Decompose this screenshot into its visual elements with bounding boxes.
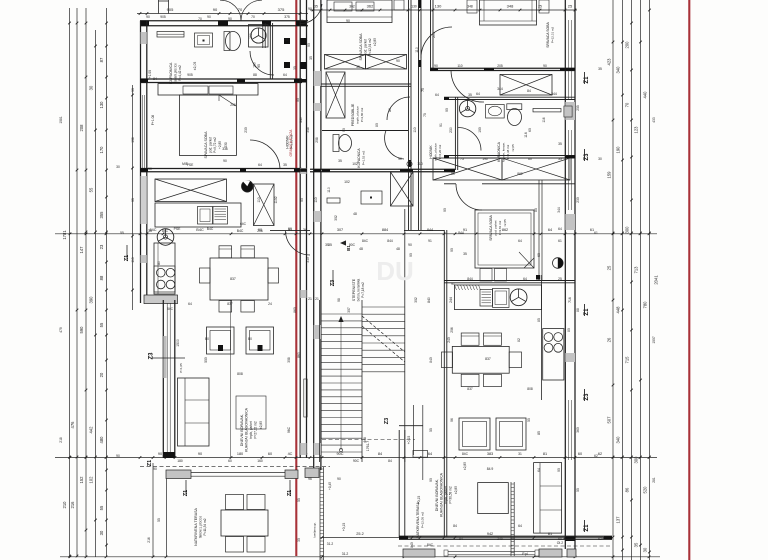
bathroom partition wall xyxy=(269,23,271,79)
svg-text:35: 35 xyxy=(148,229,152,233)
svg-text:90: 90 xyxy=(116,454,120,458)
svg-text:942: 942 xyxy=(487,532,493,536)
wc top wall xyxy=(322,130,408,132)
stair dashed level line xyxy=(322,439,415,441)
svg-text:PSE: PSE xyxy=(174,227,182,231)
terrace west edge xyxy=(152,463,154,557)
kitchen cabinet xbox row xyxy=(155,179,227,202)
svg-text:360: 360 xyxy=(576,427,580,433)
stair break dashed diagonal xyxy=(362,316,405,352)
lower horizontal dimension line xyxy=(55,457,657,459)
svg-text:862: 862 xyxy=(502,228,508,232)
svg-text:25: 25 xyxy=(558,277,562,281)
svg-text:216: 216 xyxy=(147,537,151,543)
coffee table right xyxy=(478,483,509,514)
svg-text:302: 302 xyxy=(414,297,418,303)
svg-text:2041: 2041 xyxy=(654,275,659,285)
svg-text:±2,05: ±2,05 xyxy=(511,144,515,152)
svg-text:84: 84 xyxy=(453,524,457,528)
svg-text:90: 90 xyxy=(307,43,311,47)
south facade pier west xyxy=(166,470,191,479)
shower fan circle xyxy=(251,28,266,43)
svg-text:64: 64 xyxy=(548,228,552,232)
section circle marker xyxy=(553,258,564,269)
svg-text:344: 344 xyxy=(557,207,561,213)
bottom right dimension line xyxy=(322,537,612,539)
right unit bottom wall xyxy=(399,535,612,537)
svg-text:90: 90 xyxy=(557,468,561,472)
bedroom1 wall to kitchen xyxy=(140,168,302,170)
wc bottom wall xyxy=(310,168,455,170)
svg-text:64: 64 xyxy=(537,468,541,472)
lower west wall gray sliver xyxy=(163,336,166,378)
mid dim ticks xyxy=(69,233,72,236)
stair south pier xyxy=(305,468,319,478)
svg-text:90: 90 xyxy=(308,7,312,11)
svg-text:25: 25 xyxy=(538,5,542,9)
svg-text:844: 844 xyxy=(427,228,433,232)
svg-text:130: 130 xyxy=(435,4,442,9)
wardrobe xbox row right xyxy=(433,158,502,180)
svg-text:P=11,34 m2: P=11,34 m2 xyxy=(203,518,207,535)
svg-text:91: 91 xyxy=(428,239,432,243)
svg-text:51: 51 xyxy=(300,19,304,23)
stair walk line with arrow xyxy=(340,322,342,450)
svg-text:75: 75 xyxy=(421,88,425,92)
bedroom-m side table xyxy=(394,0,404,10)
svg-text:190: 190 xyxy=(482,157,488,161)
svg-text:64: 64 xyxy=(476,92,480,96)
svg-text:75: 75 xyxy=(423,113,427,117)
svg-text:218: 218 xyxy=(59,437,63,443)
svg-text:P=30,58 m2: P=30,58 m2 xyxy=(449,486,453,504)
dining chair right xyxy=(268,268,279,283)
svg-text:137: 137 xyxy=(616,516,621,524)
svg-text:60: 60 xyxy=(578,452,582,456)
svg-text:±2,85: ±2,85 xyxy=(463,462,467,470)
svg-text:48: 48 xyxy=(353,212,357,216)
svg-text:tepih, plocice: tepih, plocice xyxy=(356,106,360,124)
right facade pier 2 xyxy=(539,549,562,557)
svg-text:110: 110 xyxy=(257,197,261,202)
right dimension chain line 1 xyxy=(612,0,614,560)
entry hall wall xyxy=(399,425,423,427)
svg-text:81: 81 xyxy=(543,452,547,456)
svg-text:30: 30 xyxy=(643,547,648,552)
door stop circle xyxy=(407,161,412,166)
svg-text:116: 116 xyxy=(542,117,546,122)
svg-text:205: 205 xyxy=(497,64,503,68)
svg-text:84C: 84C xyxy=(362,239,369,243)
svg-text:1102: 1102 xyxy=(274,196,278,203)
bedroom3 door arc xyxy=(456,184,482,210)
svg-text:pod: parket: pod: parket xyxy=(494,220,498,235)
svg-text:Z3: Z3 xyxy=(384,418,390,424)
svg-text:beton, keramika: beton, keramika xyxy=(357,278,361,301)
svg-text:84: 84 xyxy=(153,77,157,81)
svg-text:B4C: B4C xyxy=(237,229,244,233)
svg-text:80: 80 xyxy=(157,261,161,265)
svg-text:90: 90 xyxy=(296,98,300,102)
left unit west wall upper xyxy=(140,21,142,303)
svg-text:433: 433 xyxy=(652,117,656,123)
bedroom1 pillow left xyxy=(183,86,208,94)
south facade dashed line xyxy=(140,465,330,467)
top wall stub lines xyxy=(158,0,160,14)
bathroom towel radiator xyxy=(157,32,184,38)
entry door arc top middle xyxy=(300,4,322,24)
east wall gray fills xyxy=(565,102,575,120)
east wall right unit xyxy=(564,0,566,549)
svg-text:62: 62 xyxy=(594,454,598,458)
svg-text:90: 90 xyxy=(398,157,402,161)
right facade pier 1 xyxy=(403,549,435,557)
terrace tick ruler xyxy=(319,467,321,560)
svg-text:keram.plocice: keram.plocice xyxy=(174,63,178,83)
svg-text:70: 70 xyxy=(625,102,630,107)
bathroom toilet xyxy=(224,32,230,51)
svg-text:+0,15: +0,15 xyxy=(407,436,411,445)
svg-text:200: 200 xyxy=(625,41,630,49)
west wall step counter hatch xyxy=(144,295,178,304)
svg-text:230: 230 xyxy=(576,197,580,203)
svg-text:91: 91 xyxy=(451,172,455,176)
left unit east wall xyxy=(299,0,301,458)
svg-text:255: 255 xyxy=(576,105,580,111)
svg-text:84: 84 xyxy=(388,459,392,463)
svg-text:308: 308 xyxy=(287,357,291,363)
kitchen counter row xyxy=(155,203,241,227)
wc toilet xyxy=(333,135,339,152)
terrace table xyxy=(221,510,268,536)
svg-text:837: 837 xyxy=(230,277,236,281)
svg-text:P+1.08: P+1.08 xyxy=(151,115,155,126)
svg-text:90: 90 xyxy=(443,208,447,212)
left unit top wall fills xyxy=(140,21,149,26)
corridor black squares xyxy=(284,38,290,44)
right dimension chain line 3 xyxy=(631,0,633,560)
svg-text:844: 844 xyxy=(458,231,464,235)
svg-text:35: 35 xyxy=(309,56,313,60)
svg-text:55: 55 xyxy=(297,498,301,502)
east wall window glass xyxy=(567,20,569,100)
dining2 chair top2 xyxy=(484,333,502,345)
svg-text:837: 837 xyxy=(485,357,491,361)
shower cell walls xyxy=(249,25,269,48)
svg-text:4C: 4C xyxy=(288,452,293,456)
svg-text:35: 35 xyxy=(293,66,297,70)
svg-text:205: 205 xyxy=(432,32,436,38)
svg-text:P=9,72 m2: P=9,72 m2 xyxy=(213,137,217,153)
svg-text:SPAVACA SOBA: SPAVACA SOBA xyxy=(204,131,208,159)
svg-text:DNEVNI BORAVAK,: DNEVNI BORAVAK, xyxy=(240,414,244,446)
dining table right unit xyxy=(452,346,509,373)
svg-text:64: 64 xyxy=(558,227,562,231)
dining2 chair top1 xyxy=(461,333,479,345)
svg-text:35: 35 xyxy=(598,67,602,71)
svg-text:48: 48 xyxy=(359,247,363,251)
svg-text:61: 61 xyxy=(558,239,562,243)
svg-text:tepih, parket: tepih, parket xyxy=(444,486,448,504)
svg-text:123: 123 xyxy=(634,126,639,134)
svg-text:448: 448 xyxy=(616,306,621,314)
svg-text:87: 87 xyxy=(99,57,104,62)
svg-text:86: 86 xyxy=(625,487,630,492)
svg-text:84C: 84C xyxy=(462,452,469,456)
lower window glass lines xyxy=(166,303,168,452)
svg-text:88: 88 xyxy=(99,275,104,280)
wardrobe xbox row mid xyxy=(325,55,366,70)
svg-text:110: 110 xyxy=(131,257,135,262)
svg-text:476: 476 xyxy=(70,421,75,429)
svg-text:P=2,80 m2: P=2,80 m2 xyxy=(360,107,364,122)
svg-text:716: 716 xyxy=(568,297,572,303)
svg-text:90: 90 xyxy=(408,243,412,247)
left dimension chain line 2 xyxy=(76,8,78,557)
svg-text:808: 808 xyxy=(527,387,533,391)
bedroom3 top wall xyxy=(444,183,456,185)
shaft xbox below wc xyxy=(391,172,414,206)
svg-text:85: 85 xyxy=(537,431,541,435)
kitchen dishrack xyxy=(213,207,228,225)
bedroom1 door arc xyxy=(250,140,280,169)
top entry door arc right xyxy=(241,0,262,21)
svg-text:110: 110 xyxy=(413,127,417,132)
south facade pier east xyxy=(285,470,298,479)
south facade glass doors xyxy=(191,472,285,474)
kitchen2 hatch top xyxy=(455,285,457,290)
svg-text:P=4,42 m2: P=4,42 m2 xyxy=(178,65,182,81)
west wall lower window wall xyxy=(162,300,164,458)
bathroom bottom wall xyxy=(140,78,302,80)
svg-text:26: 26 xyxy=(607,337,612,342)
svg-text:64: 64 xyxy=(523,277,527,281)
svg-text:DNEVNI BORAVAK,: DNEVNI BORAVAK, xyxy=(435,479,439,511)
svg-text:tepih, parket: tepih, parket xyxy=(249,421,253,439)
kitchen sink xyxy=(198,207,213,225)
svg-text:25: 25 xyxy=(607,265,612,270)
svg-text:190: 190 xyxy=(616,146,621,154)
svg-text:480: 480 xyxy=(99,436,104,444)
bathroom2 gray block xyxy=(564,106,572,117)
bathroom2 towel rail xyxy=(533,109,561,112)
bottom right dim ticks xyxy=(321,536,324,539)
svg-text:KUHINJA I BLAGOVAONICA: KUHINJA I BLAGOVAONICA xyxy=(440,472,444,517)
svg-text:307: 307 xyxy=(347,307,351,313)
svg-text:85: 85 xyxy=(534,208,538,212)
svg-text:340: 340 xyxy=(616,436,621,444)
svg-text:110: 110 xyxy=(327,187,331,193)
svg-text:130: 130 xyxy=(411,5,417,9)
svg-text:80: 80 xyxy=(388,108,392,112)
svg-text:520: 520 xyxy=(643,486,648,494)
svg-text:844: 844 xyxy=(467,277,473,281)
svg-text:90C: 90C xyxy=(353,459,360,463)
svg-text:423: 423 xyxy=(607,58,612,66)
armchair 2 xyxy=(246,327,274,354)
svg-text:180: 180 xyxy=(177,459,183,463)
svg-text:90: 90 xyxy=(450,248,454,252)
living room carpet rect xyxy=(236,396,266,429)
svg-text:362: 362 xyxy=(349,5,355,9)
dining chair bottom2 xyxy=(241,301,254,313)
top dim ticks left xyxy=(139,12,142,15)
svg-text:35: 35 xyxy=(356,65,360,69)
living room door arc xyxy=(286,231,311,255)
kitchen lower counter xyxy=(154,243,175,294)
svg-text:64: 64 xyxy=(258,163,262,167)
bathroom2 top wall xyxy=(444,96,575,98)
svg-text:Z1: Z1 xyxy=(147,460,153,466)
svg-text:442: 442 xyxy=(89,426,94,434)
svg-text:336: 336 xyxy=(222,147,228,151)
svg-text:230: 230 xyxy=(244,127,248,133)
svg-text:390: 390 xyxy=(89,296,94,304)
svg-text:B4C: B4C xyxy=(196,228,204,232)
right unit west wall xyxy=(313,0,315,470)
kitchen hob symbol xyxy=(242,181,254,193)
svg-text:±2,85: ±2,85 xyxy=(259,421,263,429)
dining table left unit xyxy=(210,258,268,300)
left dimension chain line 4 xyxy=(95,30,97,557)
bedroom3 bed xyxy=(475,210,534,268)
svg-text:190: 190 xyxy=(249,33,253,39)
svg-text:159: 159 xyxy=(607,171,612,179)
bedroom2 side table right xyxy=(539,0,549,13)
svg-text:310: 310 xyxy=(306,257,310,263)
svg-text:905: 905 xyxy=(187,73,193,77)
dining chair top1 xyxy=(219,246,232,258)
svg-text:35: 35 xyxy=(325,243,329,247)
svg-text:21: 21 xyxy=(315,297,319,301)
svg-text:383: 383 xyxy=(487,452,493,456)
svg-text:110: 110 xyxy=(417,162,423,166)
kitchen tall xbox xyxy=(254,184,275,226)
kitchen2 black marker xyxy=(536,275,540,280)
svg-text:25: 25 xyxy=(568,4,573,9)
svg-text:60: 60 xyxy=(528,128,532,132)
stair flight2 treads xyxy=(362,306,405,308)
svg-text:160: 160 xyxy=(253,62,257,68)
bedroom3 closet lines xyxy=(538,180,540,280)
svg-text:48: 48 xyxy=(396,247,400,251)
svg-text:31: 31 xyxy=(518,452,522,456)
svg-text:P=1,52 m2: P=1,52 m2 xyxy=(362,150,366,165)
svg-text:60: 60 xyxy=(268,452,272,456)
bedroom1 bed headboard xyxy=(158,84,258,95)
svg-text:B0: B0 xyxy=(205,337,209,341)
svg-text:96: 96 xyxy=(450,418,454,422)
svg-text:837: 837 xyxy=(467,387,473,391)
svg-text:90: 90 xyxy=(346,19,350,23)
stair west string xyxy=(319,300,321,462)
svg-text:780: 780 xyxy=(643,301,648,309)
svg-text:84: 84 xyxy=(527,89,531,93)
svg-text:64C: 64C xyxy=(240,222,247,226)
svg-text:P=6,20 m2: P=6,20 m2 xyxy=(438,144,442,159)
svg-text:P=27,32 m2: P=27,32 m2 xyxy=(254,421,258,439)
lower dim ticks xyxy=(69,456,72,459)
left living top wall seg xyxy=(270,230,310,232)
svg-text:SPAVACA SOBA: SPAVACA SOBA xyxy=(489,215,493,241)
left dimension chain line 3 xyxy=(85,8,87,557)
bedroom2 bottom wall xyxy=(430,67,575,69)
svg-text:95: 95 xyxy=(131,198,135,202)
east wall gray fills xyxy=(300,38,306,45)
svg-text:147: 147 xyxy=(79,246,84,254)
stair block east wall xyxy=(398,430,400,537)
shower divider wall xyxy=(262,23,264,48)
svg-text:348: 348 xyxy=(306,127,310,133)
left dimension chain line 1 xyxy=(69,8,71,557)
bathroom door arc xyxy=(250,51,274,75)
armchair right1 xyxy=(459,418,490,450)
svg-text:1500: 1500 xyxy=(176,339,180,347)
kitchen2 east counter wall xyxy=(541,275,543,400)
svg-text:70: 70 xyxy=(251,15,255,19)
svg-text:507: 507 xyxy=(607,416,612,424)
svg-text:860: 860 xyxy=(293,307,297,313)
svg-text:302: 302 xyxy=(334,215,338,221)
bedroom2 door arc xyxy=(451,71,484,103)
svg-text:55: 55 xyxy=(120,231,124,235)
svg-text:152: 152 xyxy=(79,476,84,484)
svg-text:60: 60 xyxy=(228,459,232,463)
entry threshold xyxy=(413,451,428,458)
svg-text:210: 210 xyxy=(62,501,67,509)
svg-text:355: 355 xyxy=(99,211,104,219)
svg-text:90C: 90C xyxy=(337,452,344,456)
svg-text:84C: 84C xyxy=(162,229,169,233)
svg-text:55: 55 xyxy=(99,322,104,327)
svg-text:21: 21 xyxy=(308,297,312,301)
window dim line left xyxy=(132,85,134,310)
svg-text:55: 55 xyxy=(89,187,94,192)
svg-text:NATKRIVENA TERASA: NATKRIVENA TERASA xyxy=(416,501,420,537)
stair flight1 treads xyxy=(321,313,362,315)
bottom edge dim ticks xyxy=(69,556,72,559)
small table with dot xyxy=(361,191,382,204)
svg-text:170: 170 xyxy=(99,146,104,154)
bedroom2 west wall xyxy=(430,0,432,71)
svg-text:P=7,18 m2: P=7,18 m2 xyxy=(361,282,365,298)
svg-text:30: 30 xyxy=(131,88,135,92)
red section line middle xyxy=(295,0,297,556)
svg-text:1007: 1007 xyxy=(652,336,656,344)
svg-text:550: 550 xyxy=(204,357,208,363)
svg-text:860: 860 xyxy=(297,352,301,358)
right dimension chain line 4 xyxy=(640,0,642,560)
svg-text:84.9: 84.9 xyxy=(487,467,494,471)
dining2 chair right xyxy=(509,352,521,368)
svg-text:307: 307 xyxy=(337,228,343,232)
svg-text:160: 160 xyxy=(257,459,263,463)
svg-text:90: 90 xyxy=(445,108,449,112)
svg-text:90: 90 xyxy=(300,198,304,202)
svg-text:98: 98 xyxy=(337,298,341,302)
svg-text:35: 35 xyxy=(558,142,562,146)
svg-text:64: 64 xyxy=(435,93,439,97)
entry door arc right unit xyxy=(421,27,452,58)
svg-text:7+1.05: 7+1.05 xyxy=(148,70,152,80)
dining2 chair bottom2 xyxy=(484,374,502,386)
svg-text:±2,85: ±2,85 xyxy=(503,219,507,227)
svg-text:61: 61 xyxy=(594,231,598,235)
svg-text:P=5,38 m2: P=5,38 m2 xyxy=(506,144,510,159)
svg-text:SPAVACA SOBA: SPAVACA SOBA xyxy=(546,22,550,48)
svg-text:35: 35 xyxy=(468,93,472,97)
thin shelf rect xyxy=(327,198,340,203)
